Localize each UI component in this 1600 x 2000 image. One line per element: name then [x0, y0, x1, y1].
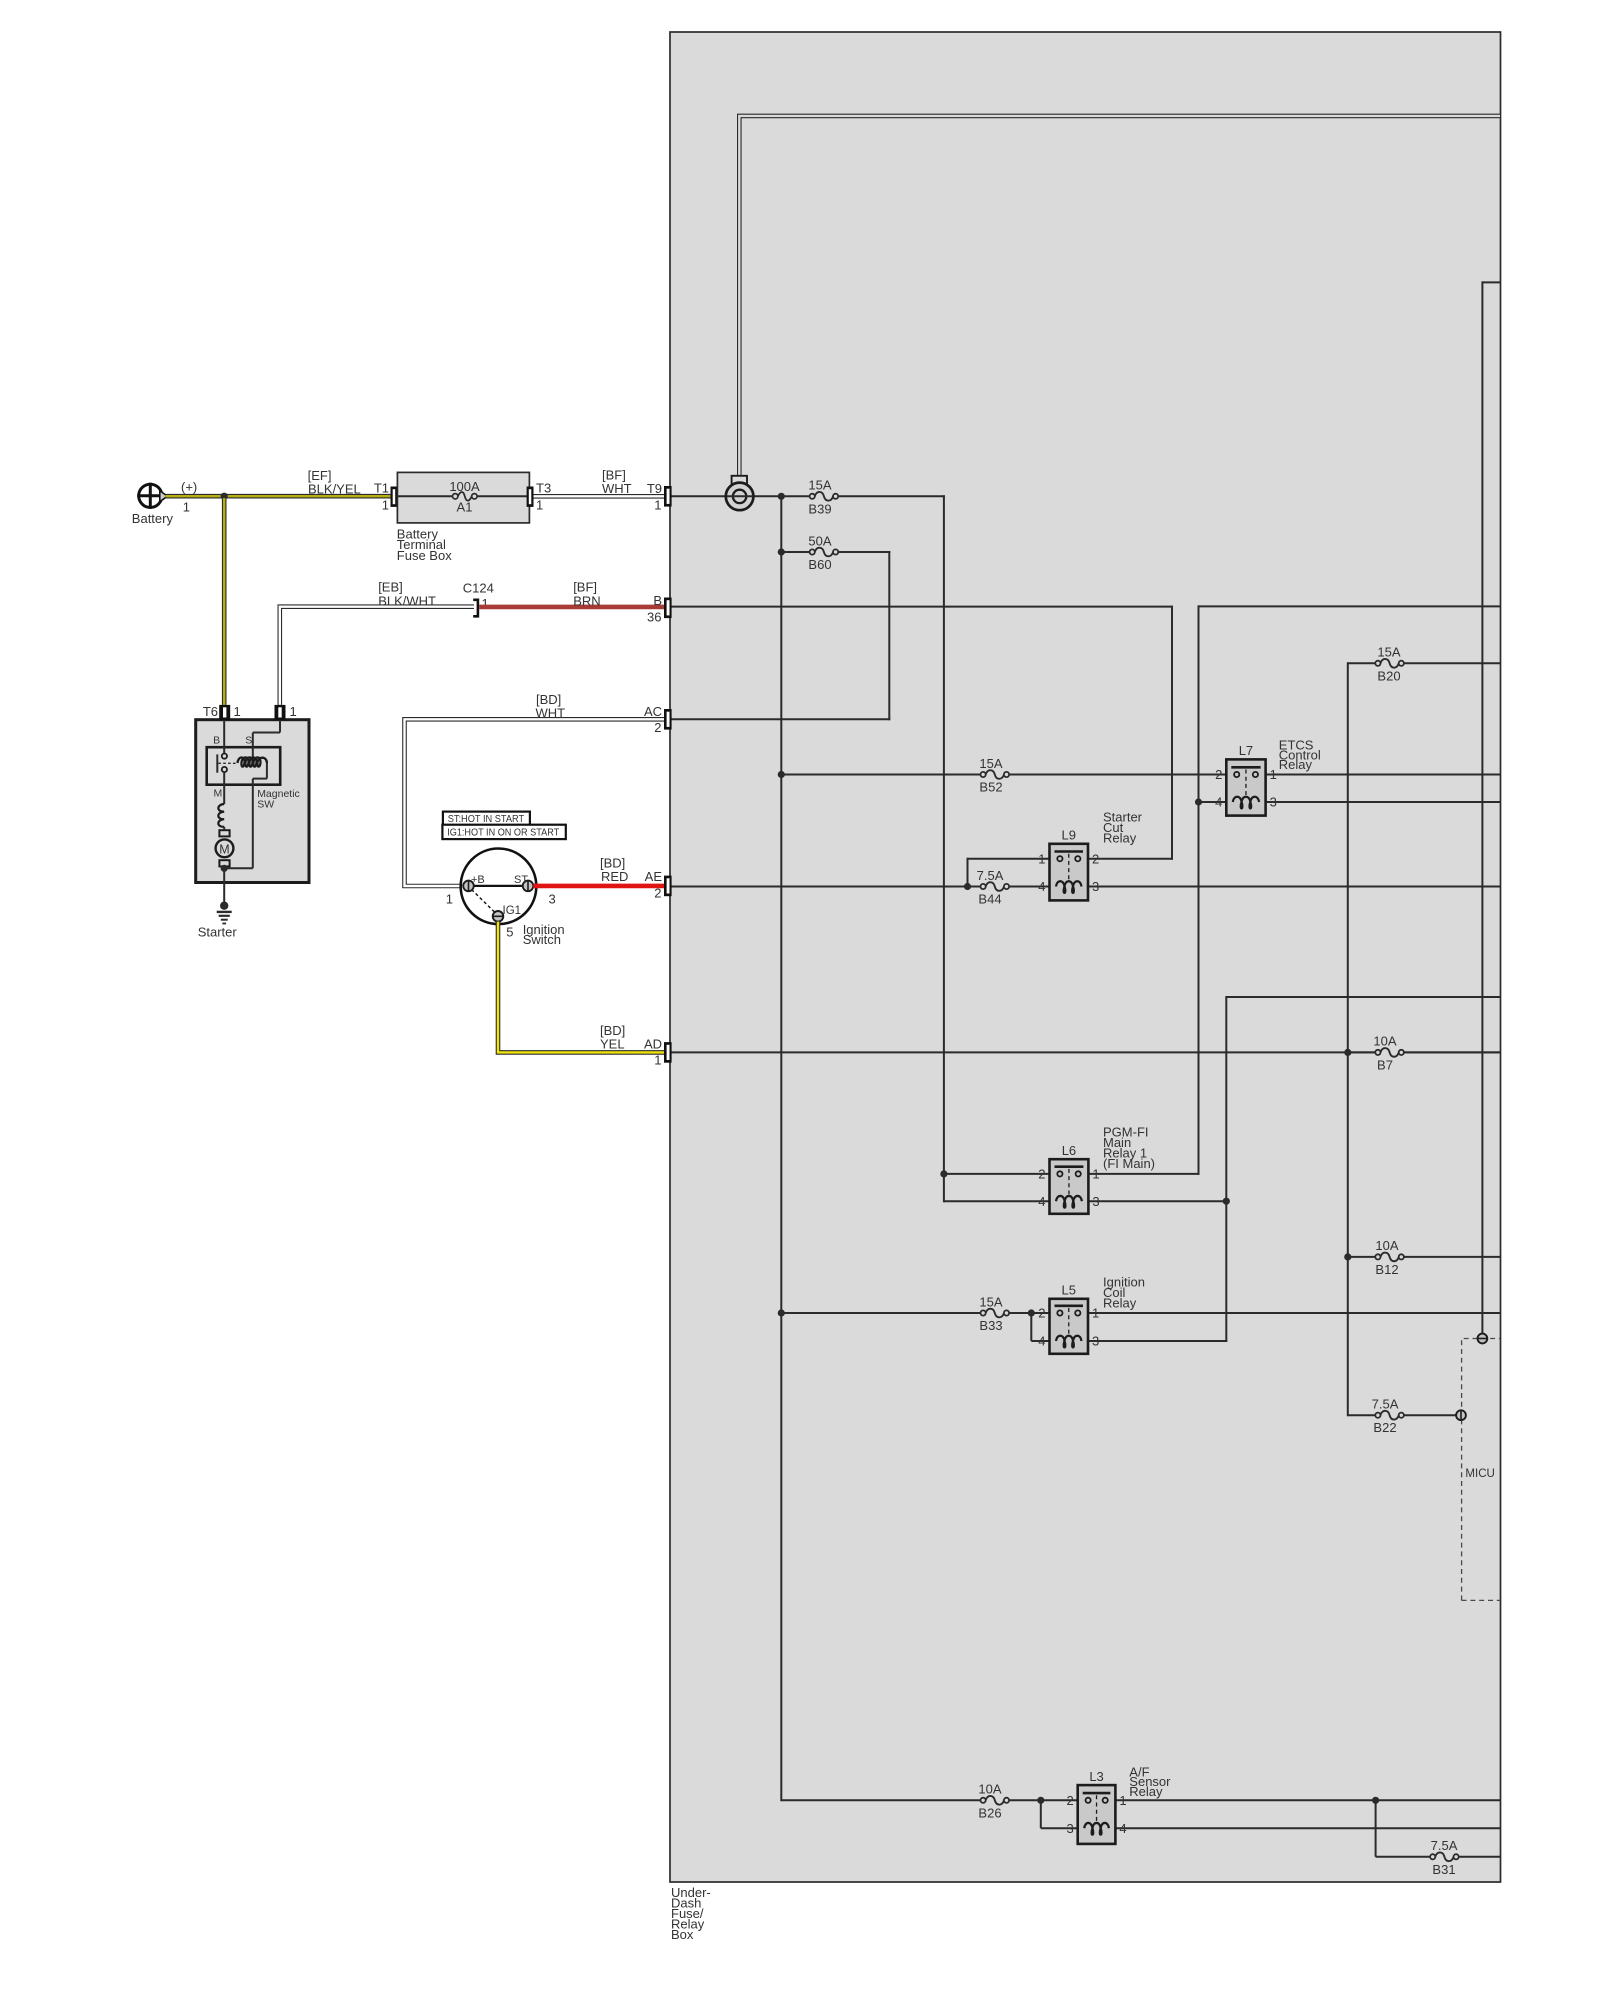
svg-text:10A: 10A	[978, 1782, 1001, 1797]
svg-text:SW: SW	[257, 799, 274, 811]
svg-text:4: 4	[1038, 879, 1045, 894]
svg-text:B44: B44	[978, 892, 1001, 907]
svg-text:+B: +B	[471, 874, 485, 886]
ignition terminal IG1	[493, 911, 504, 922]
wire L5 pin1 row right	[1088, 1312, 1500, 1314]
svg-text:2: 2	[1038, 1167, 1045, 1182]
relay L7 ETCS Control Relay	[1226, 759, 1265, 815]
wire vertical x=889.3 (B60 to AC)	[888, 551, 890, 720]
svg-text:1: 1	[382, 498, 389, 513]
svg-text:2: 2	[1066, 1793, 1073, 1808]
wire starter to ground	[223, 883, 225, 904]
svg-text:T6: T6	[203, 704, 218, 719]
svg-text:1: 1	[183, 500, 190, 515]
svg-text:15A: 15A	[1377, 645, 1400, 660]
svg-text:BLK/YEL: BLK/YEL	[308, 481, 361, 496]
ignition terminal ST	[523, 881, 534, 892]
svg-text:1: 1	[234, 704, 241, 719]
wire B22 row y=1415.2	[1348, 1414, 1457, 1416]
svg-text:15A: 15A	[808, 478, 831, 493]
ignition terminal +B	[463, 881, 474, 892]
wire AD row y=1052.4	[671, 1051, 1500, 1053]
svg-text:7.5A: 7.5A	[1372, 1397, 1399, 1412]
svg-text:[EB]: [EB]	[378, 580, 403, 595]
svg-text:1: 1	[536, 498, 543, 513]
ignition switch contact +B to ST	[474, 885, 523, 887]
svg-text:5: 5	[506, 925, 513, 940]
fuse B26 10A	[985, 1797, 1005, 1803]
svg-text:B26: B26	[978, 1805, 1001, 1820]
svg-text:BLK/WHT: BLK/WHT	[378, 593, 436, 608]
svg-text:L3: L3	[1089, 1769, 1103, 1784]
wire BLK/WHT starter S to C124	[280, 607, 474, 705]
fuse B44 7.5A	[985, 884, 1005, 890]
svg-text:Starter: Starter	[198, 925, 238, 940]
svg-text:B33: B33	[979, 1318, 1002, 1333]
relay L9 Starter Cut Relay	[1050, 844, 1089, 901]
wire T9 row y=496	[671, 495, 945, 497]
svg-text:[BF]: [BF]	[573, 580, 597, 595]
relay L6 PGM-FI Main Relay 1	[1050, 1159, 1089, 1214]
wire L7 pin1 row right	[1266, 774, 1500, 776]
wire BRN C124 to B	[479, 605, 664, 610]
wire AC row y=719.3	[671, 718, 890, 720]
wire L3 pin4 row right	[1115, 1827, 1500, 1829]
svg-text:AE: AE	[645, 869, 663, 884]
svg-text:B60: B60	[808, 557, 831, 572]
ground symbol	[220, 902, 228, 910]
wire right row y=606.4	[1199, 605, 1501, 607]
svg-text:50A: 50A	[808, 533, 831, 548]
svg-text:B20: B20	[1377, 668, 1400, 683]
svg-text:M: M	[214, 788, 223, 800]
wire L3 coil branch x=1040.8	[1040, 1800, 1042, 1828]
svg-text:Relay: Relay	[1103, 1296, 1137, 1311]
svg-text:ST:HOT IN START: ST:HOT IN START	[448, 814, 525, 825]
svg-text:(FI Main): (FI Main)	[1103, 1156, 1155, 1171]
note box IG1:HOT IN ON OR START	[442, 825, 565, 839]
wire WHT T3 to T9	[534, 494, 665, 499]
svg-text:T1: T1	[374, 480, 389, 495]
terminal S (pin 1)	[275, 705, 286, 720]
svg-text:T3: T3	[536, 480, 551, 495]
wire L6 pin3 to dot x=1226	[1088, 1200, 1226, 1202]
fuse B60 50A	[814, 549, 834, 555]
wire vertical x=1198.5	[1198, 605, 1200, 1175]
svg-text:2: 2	[1038, 1306, 1045, 1321]
svg-text:3: 3	[1092, 1194, 1099, 1209]
battery symbol	[139, 484, 162, 507]
svg-text:7.5A: 7.5A	[977, 868, 1004, 883]
wire YEL IG1 to AD	[498, 922, 664, 1053]
svg-text:L7: L7	[1239, 743, 1253, 758]
svg-text:BRN: BRN	[573, 593, 600, 608]
svg-text:15A: 15A	[979, 1294, 1002, 1309]
junction dot starter	[221, 865, 228, 872]
svg-text:B: B	[653, 593, 662, 608]
wire B7 row right of dot	[1348, 1051, 1500, 1053]
svg-text:10A: 10A	[1375, 1238, 1398, 1253]
wire BLK/YEL battery to T1	[165, 494, 391, 499]
svg-text:1: 1	[446, 892, 453, 907]
wire vertical x=1482.4 to MICU	[1481, 281, 1483, 1333]
fuse B33 15A	[985, 1310, 1005, 1316]
svg-text:Fuse Box: Fuse Box	[397, 548, 452, 563]
junction dot battery	[221, 493, 228, 500]
svg-text:Relay: Relay	[1103, 831, 1137, 846]
svg-text:1: 1	[1092, 1306, 1099, 1321]
svg-text:4: 4	[1119, 1821, 1126, 1836]
wire L9 pin1 branch	[968, 858, 1050, 860]
svg-text:L6: L6	[1062, 1143, 1076, 1158]
note box ST:HOT IN START	[443, 812, 530, 826]
terminal AC	[664, 709, 672, 730]
svg-text:YEL: YEL	[600, 1037, 625, 1052]
fuse B39 15A	[814, 493, 834, 499]
terminal AE	[664, 876, 672, 897]
svg-text:(+): (+)	[181, 480, 197, 495]
ignition switch dashed to IG1	[472, 890, 496, 914]
svg-text:4: 4	[1038, 1334, 1045, 1349]
svg-text:36: 36	[647, 609, 661, 624]
svg-text:ST: ST	[514, 874, 528, 886]
svg-text:IG1: IG1	[503, 905, 522, 917]
magnetic SW coil	[279, 720, 281, 733]
svg-text:L9: L9	[1062, 828, 1076, 843]
svg-text:2: 2	[654, 885, 661, 900]
wire vertical x=781.3	[780, 496, 782, 1801]
wire B60 row y=552	[781, 551, 890, 553]
svg-text:4: 4	[1038, 1194, 1045, 1209]
svg-text:Box: Box	[671, 1927, 694, 1942]
terminal B	[664, 598, 672, 619]
svg-text:3: 3	[1066, 1821, 1073, 1836]
wire L9 pin2 to corner	[1088, 858, 1173, 860]
wire vertical x=943.9	[943, 495, 945, 1202]
svg-text:1: 1	[1038, 851, 1045, 866]
svg-text:B39: B39	[808, 501, 831, 516]
svg-text:S: S	[245, 734, 252, 746]
fuse B31 7.5A	[1434, 1854, 1454, 1860]
svg-text:B7: B7	[1377, 1057, 1393, 1072]
svg-text:10A: 10A	[1373, 1034, 1396, 1049]
wire B31 row y=1856.8	[1376, 1856, 1500, 1858]
fuse B7 10A	[1379, 1050, 1399, 1056]
svg-text:C124: C124	[463, 581, 494, 596]
svg-text:M: M	[219, 842, 229, 856]
svg-text:L5: L5	[1062, 1283, 1076, 1298]
svg-text:RED: RED	[601, 869, 628, 884]
MICU dashed box	[1462, 1339, 1500, 1601]
wire L7 pin3 row right	[1266, 801, 1500, 803]
wire B row y=606.6	[671, 606, 1173, 608]
wire L5 pin3 to corner x=1226.3	[1088, 1340, 1227, 1342]
svg-text:WHT: WHT	[536, 706, 566, 721]
svg-text:B22: B22	[1373, 1420, 1396, 1435]
fuse B20 15A	[1379, 660, 1399, 666]
wire B26 row y=1800.3	[781, 1799, 1077, 1801]
terminal T6	[219, 705, 230, 720]
wire L3 pin1 row right	[1115, 1799, 1500, 1801]
terminal T9	[664, 486, 672, 507]
under-dash fuse/relay box	[670, 32, 1501, 1882]
svg-text:A1: A1	[457, 500, 473, 515]
svg-text:1: 1	[654, 498, 661, 513]
relay L3 A/F Sensor Relay	[1078, 1785, 1116, 1844]
wire L6 coil row y=1201.2	[944, 1200, 1050, 1202]
battery cable double line	[739, 116, 1500, 483]
svg-text:4: 4	[1215, 795, 1222, 810]
wire top-right row y=282.4	[1482, 281, 1500, 283]
wire vertical x=1226.3	[1225, 996, 1227, 1342]
battery terminal fuse box	[397, 472, 529, 523]
terminal T1	[391, 487, 398, 507]
terminal AD	[664, 1042, 672, 1063]
relay L5 Ignition Coil Relay	[1050, 1299, 1089, 1354]
svg-text:2: 2	[1092, 851, 1099, 866]
svg-text:B: B	[213, 734, 220, 746]
fuse B12 10A	[1379, 1254, 1399, 1260]
wire B12 row y=1256.9	[1348, 1256, 1500, 1258]
junction dots	[778, 493, 785, 500]
ignition switch circle	[461, 849, 537, 925]
svg-text:T9: T9	[647, 481, 662, 496]
wire B20 row y=663.3	[1348, 662, 1500, 664]
starter motor M	[219, 830, 229, 836]
wire L7 coil row y=802	[1199, 801, 1227, 803]
terminal T3	[527, 487, 534, 507]
svg-text:1: 1	[290, 704, 297, 719]
svg-text:7.5A: 7.5A	[1431, 1838, 1458, 1853]
svg-text:2: 2	[654, 720, 661, 735]
wire AE row y=886.5	[671, 886, 1050, 888]
fuse B52 15A	[985, 772, 1005, 778]
svg-text:B31: B31	[1432, 1862, 1455, 1877]
wire L5 coil branch x=1031.3	[1030, 1313, 1032, 1341]
fuse B22 7.5A	[1379, 1412, 1399, 1418]
wire row y=997 right	[1226, 996, 1500, 998]
contact in magnetic SW	[223, 720, 225, 754]
svg-text:Relay: Relay	[1129, 1784, 1163, 1799]
starter inductor	[223, 773, 225, 804]
svg-text:1: 1	[1119, 1793, 1126, 1808]
starter box	[196, 720, 309, 883]
svg-text:3: 3	[1092, 1334, 1099, 1349]
svg-text:B12: B12	[1375, 1262, 1398, 1277]
svg-text:WHT: WHT	[602, 481, 632, 496]
svg-text:100A: 100A	[449, 479, 480, 494]
wire B33 row y=1313	[781, 1312, 1049, 1314]
magnetic SW inner box	[207, 747, 281, 785]
wire L9 pin3 row right	[1088, 886, 1500, 888]
svg-text:1: 1	[654, 1052, 661, 1067]
wire vertical x=1375.6 (to B31)	[1375, 1800, 1377, 1857]
wire B52 row y=774.5	[781, 774, 1226, 776]
svg-text:IG1:HOT IN ON OR START: IG1:HOT IN ON OR START	[447, 828, 559, 839]
svg-text:1: 1	[1270, 767, 1277, 782]
svg-text:Battery: Battery	[132, 511, 174, 526]
wire L6 pin1 row to corner x=1198.5	[1088, 1173, 1199, 1175]
wire vertical x=1347.8 (B20 to B22)	[1347, 662, 1349, 1416]
wire WHT +B loop to AC	[405, 719, 665, 886]
svg-text:AC: AC	[644, 704, 662, 719]
svg-text:Relay: Relay	[1279, 757, 1313, 772]
svg-text:B52: B52	[979, 780, 1002, 795]
wire corner B row down x=1172	[1171, 606, 1173, 860]
svg-text:Switch: Switch	[523, 932, 561, 947]
svg-text:AD: AD	[644, 1037, 662, 1052]
wire BLK/YEL down to starter T6	[222, 498, 227, 705]
wire L6 pin2 row	[944, 1173, 1050, 1175]
MICU connector pin (B22)	[1456, 1410, 1466, 1420]
wires inside fuse box	[397, 495, 452, 497]
ring terminal connector	[732, 476, 747, 485]
MICU connector pin (top)	[1478, 1334, 1488, 1344]
svg-text:MICU: MICU	[1465, 1466, 1495, 1480]
svg-text:15A: 15A	[979, 756, 1002, 771]
connector C124	[473, 600, 478, 617]
svg-text:3: 3	[1270, 795, 1277, 810]
svg-text:2: 2	[1215, 767, 1222, 782]
wire RED ST to AE	[533, 884, 664, 889]
svg-text:3: 3	[1092, 879, 1099, 894]
svg-text:1: 1	[1092, 1167, 1099, 1182]
svg-text:3: 3	[549, 892, 556, 907]
